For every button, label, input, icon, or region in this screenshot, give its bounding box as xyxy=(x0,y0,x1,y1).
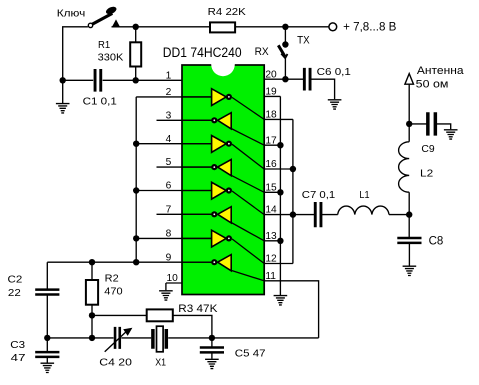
svg-text:L1: L1 xyxy=(359,189,369,201)
svg-text:Антенна: Антенна xyxy=(417,65,465,77)
svg-text:12: 12 xyxy=(265,254,277,265)
svg-text:C7 0,1: C7 0,1 xyxy=(302,189,336,201)
svg-text:330K: 330K xyxy=(98,52,124,63)
svg-text:7: 7 xyxy=(166,204,172,215)
svg-text:R3 47K: R3 47K xyxy=(178,303,218,315)
svg-text:R2: R2 xyxy=(105,272,119,284)
svg-text:R4 22K: R4 22K xyxy=(208,7,246,18)
svg-text:DD1 74HC240: DD1 74HC240 xyxy=(163,44,242,60)
svg-text:C1 0,1: C1 0,1 xyxy=(83,97,118,108)
svg-text:8: 8 xyxy=(166,229,172,240)
svg-text:2: 2 xyxy=(166,87,172,98)
svg-text:C2: C2 xyxy=(8,274,23,286)
svg-text:C9: C9 xyxy=(421,143,434,155)
svg-text:20: 20 xyxy=(265,69,277,80)
svg-text:6: 6 xyxy=(166,181,172,192)
svg-text:9: 9 xyxy=(166,252,172,263)
svg-text:+ 7,8...8 В: + 7,8...8 В xyxy=(343,20,396,34)
svg-text:16: 16 xyxy=(265,159,277,170)
svg-text:L2: L2 xyxy=(420,167,433,179)
svg-text:3: 3 xyxy=(166,110,172,121)
svg-text:50 ом: 50 ом xyxy=(416,79,449,91)
svg-text:18: 18 xyxy=(265,110,277,121)
svg-text:TX: TX xyxy=(297,35,310,47)
svg-text:C4 20: C4 20 xyxy=(99,357,132,369)
svg-text:RX: RX xyxy=(255,46,270,58)
svg-text:1: 1 xyxy=(166,70,172,81)
svg-text:15: 15 xyxy=(265,182,277,193)
svg-text:19: 19 xyxy=(265,87,277,98)
svg-text:14: 14 xyxy=(265,205,277,216)
svg-text:11: 11 xyxy=(265,271,276,282)
svg-text:C6 0,1: C6 0,1 xyxy=(317,66,351,78)
svg-text:Ключ: Ключ xyxy=(57,9,86,20)
svg-text:10: 10 xyxy=(166,273,178,284)
svg-text:470: 470 xyxy=(104,286,122,298)
svg-text:C8: C8 xyxy=(429,235,444,247)
svg-text:17: 17 xyxy=(265,135,277,146)
svg-text:C3: C3 xyxy=(10,339,25,351)
svg-text:X1: X1 xyxy=(155,357,166,369)
svg-text:C5 47: C5 47 xyxy=(235,347,266,359)
svg-text:5: 5 xyxy=(166,157,172,168)
svg-text:47: 47 xyxy=(11,352,26,364)
svg-text:13: 13 xyxy=(265,231,277,242)
svg-text:22: 22 xyxy=(8,287,21,299)
svg-text:4: 4 xyxy=(166,134,172,145)
svg-text:R1: R1 xyxy=(98,40,110,51)
